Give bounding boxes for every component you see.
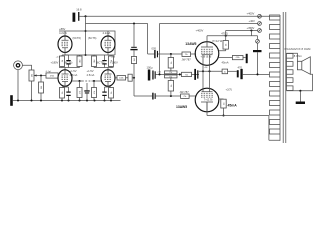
tube V1a plate riser: [64, 31, 66, 37]
B+ filter cap ground bar: [73, 13, 76, 22]
svg-text:+18 (6.4): +18 (6.4): [201, 55, 212, 59]
svg-text:45mA: 45mA: [222, 61, 229, 65]
V1a side resistor R5: [65, 55, 94, 68]
svg-text:1M: 1M: [94, 59, 96, 62]
output transformer primary: [270, 15, 281, 141]
svg-text:75k: 75k: [169, 76, 172, 78]
svg-text:1M: 1M: [32, 74, 34, 77]
100u cap C7: [152, 71, 199, 80]
svg-text:75k: 75k: [183, 96, 186, 98]
svg-text:75k: 75k: [169, 72, 172, 74]
svg-text:7+(2.9): 7+(2.9): [204, 98, 213, 102]
bypass cap C8: [237, 69, 270, 79]
input jack J1: [14, 61, 23, 70]
svg-text:JW-787: JW-787: [180, 90, 190, 94]
svg-text:16.8: 16.8: [76, 7, 82, 11]
signal drop wire to coupling: [148, 24, 155, 55]
dropper cap C5: [130, 47, 137, 57]
svg-text:+86V: +86V: [59, 27, 66, 31]
rail B+ lower: [86, 23, 258, 25]
svg-text:8 Ohm: 8 Ohm: [294, 54, 303, 58]
ground bus: [13, 100, 121, 102]
svg-text:P=12 W: P=12 W: [213, 39, 223, 43]
volume pot R1: [29, 70, 34, 101]
svg-text:13AW5: 13AW5: [176, 105, 187, 109]
svg-text:1M: 1M: [134, 58, 136, 61]
svg-text:(6CT6): (6CT6): [96, 60, 104, 64]
divider resistor lower RD2: [168, 78, 173, 96]
svg-text:MAGNAVOX 8 OHM: MAGNAVOX 8 OHM: [285, 47, 312, 51]
phase row wire: [72, 80, 101, 82]
svg-text:+1.6: +1.6: [111, 57, 116, 59]
VL plate line to OPT: [207, 102, 280, 140]
V1a cathode resistor R4: [60, 56, 65, 67]
divider resistor upper RD1: [168, 54, 173, 71]
V2b grid feedback wire: [115, 77, 117, 79]
cathode resistor mid row RK: [222, 69, 228, 74]
svg-text:+350V: +350V: [247, 26, 255, 30]
coupling cap C6: [154, 50, 182, 58]
svg-text:75k: 75k: [185, 54, 188, 56]
wire: [126, 77, 128, 79]
wire signal riser x85.5: [85, 16, 87, 55]
lower grid resistor RLL: [181, 94, 196, 98]
output cathode row wire: [199, 70, 222, 72]
phase cap C4: [84, 83, 89, 101]
output tube VU: [195, 42, 219, 72]
svg-text:+1.6: +1.6: [56, 57, 61, 59]
parallel resistor pair RP1 RP2: [165, 71, 181, 78]
rail2 drop wire: [159, 24, 161, 75]
terminal +350V: [226, 26, 262, 32]
B+ filter cap C1: [78, 12, 85, 21]
series grid resistor R2: [46, 73, 58, 78]
V2a cathode resistor R7: [109, 56, 114, 67]
transformer core: [283, 12, 286, 143]
coupling bar cap upper CU: [194, 69, 198, 80]
svg-text:470: 470: [238, 65, 243, 69]
lower coupling cap C9: [152, 93, 180, 100]
wire jack to pot: [22, 65, 31, 70]
bus junctions: [17, 100, 112, 102]
svg-text:+1.5V: +1.5V: [87, 69, 94, 73]
svg-text:+400V: +400V: [196, 29, 204, 33]
feedback resistor R11: [117, 76, 126, 80]
VU cathode resistor RF: [219, 54, 248, 63]
svg-text:75k: 75k: [185, 74, 188, 76]
svg-text:+180V: +180V: [51, 60, 59, 64]
VU plate line: [207, 35, 251, 42]
V1a cathode bypass C2: [66, 60, 70, 65]
tube V1a: [58, 36, 72, 52]
single resistor row L RS: [182, 72, 192, 76]
svg-text:(6CT6): (6CT6): [88, 36, 96, 40]
svg-text:+400V: +400V: [247, 12, 255, 16]
svg-text:JW-787: JW-787: [182, 57, 192, 61]
V2a cathode network wires: [94, 52, 115, 70]
lower grid line: [134, 95, 152, 97]
ground bar main: [10, 95, 13, 106]
VL screen resistor RS2: [219, 99, 227, 117]
lower output tube VL: [195, 71, 219, 111]
svg-text:10: 10: [224, 71, 226, 73]
secondary wires to speaker: [287, 53, 313, 91]
V1a cathode network wires: [59, 52, 80, 70]
tube V1b: [58, 70, 72, 86]
output transformer secondary: [287, 53, 294, 91]
row U node: [170, 53, 172, 55]
wire jack sleeve to ground bus: [17, 70, 19, 101]
tube V2a: [101, 36, 115, 52]
preamp plate rail: [59, 31, 115, 55]
svg-text:(6CT6): (6CT6): [64, 60, 72, 64]
tube V2b: [101, 70, 115, 86]
svg-text:+2(?): +2(?): [226, 88, 232, 92]
secondary ground: [296, 90, 305, 104]
svg-text:13AW5: 13AW5: [185, 42, 196, 46]
wire to chain: [132, 77, 134, 79]
VU screen resistor RS1: [219, 31, 229, 51]
V2b cathode network: [102, 86, 113, 100]
svg-text:4.5mA: 4.5mA: [87, 73, 95, 77]
svg-text:005: 005: [152, 47, 157, 51]
ground terminal: [253, 36, 262, 76]
svg-text:100k: 100k: [119, 77, 123, 79]
terminal +370V: [249, 19, 262, 25]
svg-text:470k: 470k: [50, 75, 54, 77]
phase resistor right R9: [92, 81, 97, 101]
lower grid node: [170, 95, 172, 97]
100u cap ground bar: [148, 70, 151, 81]
row L node: [158, 73, 160, 75]
plate line riser to +350: [251, 31, 257, 36]
tube V2a plate riser: [107, 31, 109, 37]
phase resistor left R8: [77, 81, 82, 101]
upper grid resistor RU: [182, 52, 196, 57]
svg-text:4.2mA: 4.2mA: [103, 31, 111, 35]
svg-text:470Ω: 470Ω: [221, 31, 228, 35]
svg-text:100µ: 100µ: [147, 66, 153, 70]
in-box value labels: [32, 43, 240, 105]
rail B+ upper: [84, 15, 280, 17]
B+ dropper chain node: [133, 22, 135, 46]
V1b cathode network: [60, 86, 71, 100]
grid resistor R3: [39, 82, 44, 101]
speaker: [297, 57, 310, 74]
wiper wire node A: [34, 74, 46, 82]
terminal +400V: [247, 12, 262, 18]
svg-text:45mA: 45mA: [228, 104, 238, 108]
svg-text:+40V: +40V: [249, 19, 256, 23]
output cathode drop dots: [202, 70, 211, 72]
svg-text:1M: 1M: [80, 59, 82, 62]
dropper resistor R10: [131, 57, 136, 97]
svg-text:470k: 470k: [236, 57, 240, 59]
svg-text:1M: 1M: [41, 86, 43, 89]
svg-text:4.2mA: 4.2mA: [59, 31, 67, 35]
feedback cap C10: [128, 74, 132, 81]
V2a cathode bypass C3: [102, 60, 106, 65]
svg-text:(6CT6): (6CT6): [73, 36, 81, 40]
V2a side resistor R6: [92, 56, 97, 67]
